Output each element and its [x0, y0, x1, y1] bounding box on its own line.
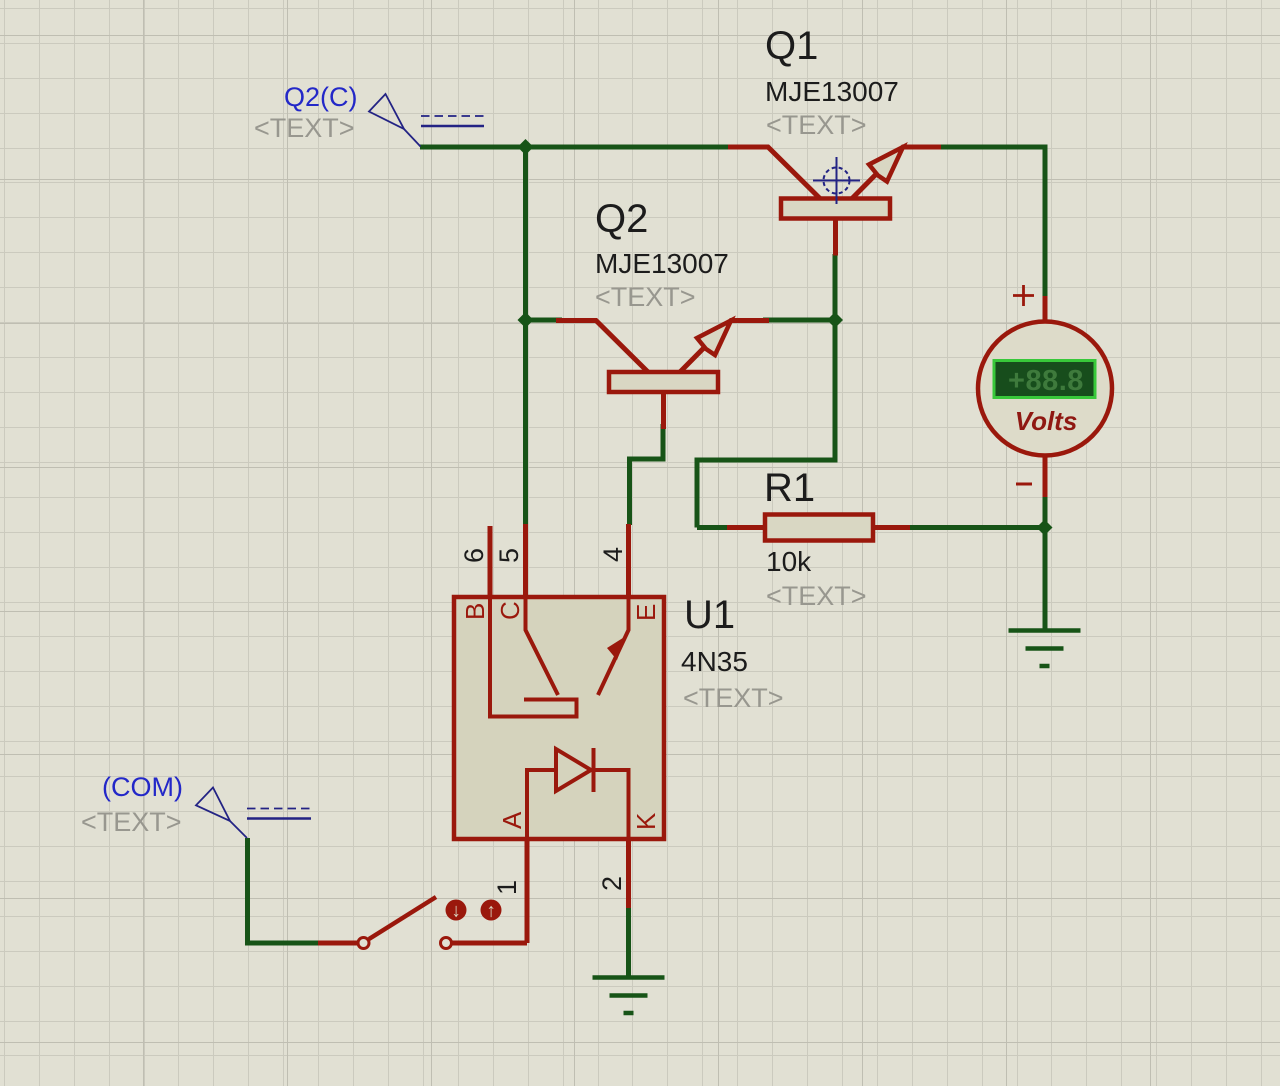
svg-text:↓: ↓: [451, 901, 461, 922]
svg-text:<TEXT>: <TEXT>: [683, 683, 784, 713]
svg-text:Q1: Q1: [765, 24, 818, 68]
svg-text:A: A: [497, 811, 527, 829]
svg-text:Volts: Volts: [1015, 406, 1078, 436]
svg-text:(COM): (COM): [102, 772, 183, 802]
svg-text:<TEXT>: <TEXT>: [254, 113, 355, 143]
svg-text:<TEXT>: <TEXT>: [81, 807, 182, 837]
svg-text:C: C: [495, 601, 525, 620]
svg-text:4N35: 4N35: [681, 646, 748, 677]
svg-text:1: 1: [492, 880, 522, 895]
svg-text:U1: U1: [684, 593, 735, 637]
svg-text:<TEXT>: <TEXT>: [595, 282, 696, 312]
svg-text:<TEXT>: <TEXT>: [766, 110, 867, 140]
svg-text:E: E: [631, 604, 661, 621]
svg-text:K: K: [631, 812, 661, 830]
svg-text:4: 4: [598, 547, 628, 562]
svg-text:B: B: [460, 603, 490, 620]
svg-text:2: 2: [597, 876, 627, 891]
svg-text:5: 5: [494, 548, 524, 563]
svg-text:MJE13007: MJE13007: [765, 76, 899, 107]
svg-text:Q2(C): Q2(C): [284, 82, 358, 112]
svg-text:MJE13007: MJE13007: [595, 248, 729, 279]
svg-text:<TEXT>: <TEXT>: [766, 581, 867, 611]
svg-text:R1: R1: [764, 466, 815, 510]
svg-text:6: 6: [459, 548, 489, 563]
svg-text:+88.8: +88.8: [1008, 365, 1084, 397]
svg-text:Q2: Q2: [595, 197, 648, 241]
svg-text:↑: ↑: [486, 901, 496, 922]
svg-text:10k: 10k: [766, 546, 812, 577]
